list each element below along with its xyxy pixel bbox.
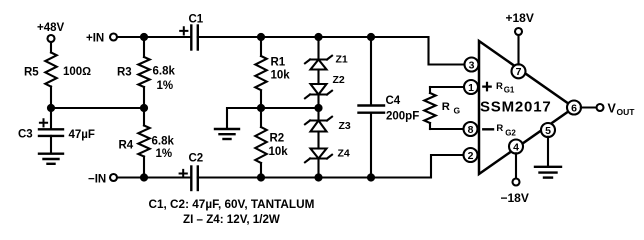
wire C1 to node E [198,36,261,38]
wire pin 6 to VOUT [581,106,597,108]
wire node B to R4 [143,108,145,126]
wire RG to pin 8 [430,128,464,130]
wire node D to C2 [144,176,191,178]
svg-text:Z4: Z4 [338,148,350,160]
svg-text:1%: 1% [157,80,174,92]
svg-text:6.8k: 6.8k [152,135,175,147]
pin 1 [464,80,478,94]
svg-text:7: 7 [516,66,522,78]
pin 5 [541,123,555,137]
wire C4 to node L [370,113,372,178]
pin 3 [465,58,479,72]
svg-text:4: 4 [513,141,519,153]
terminal +18V [506,11,534,35]
svg-text:OUT: OUT [617,107,636,117]
wire R1 to node G [260,91,262,109]
svg-text:R4: R4 [119,140,134,152]
svg-text:R: R [496,123,503,134]
resistor R3 [117,57,175,92]
pin 2 [464,148,478,162]
svg-text:SSM2017: SSM2017 [480,99,551,116]
svg-text:200pF: 200pF [386,111,419,123]
wire Z3 to Z4 [317,132,319,149]
svg-text:C1: C1 [189,14,204,26]
zener Z3 [305,117,351,132]
svg-text:R5: R5 [24,67,39,79]
wire bottom row to pin 2 [371,155,464,178]
svg-text:R3: R3 [117,67,132,79]
node C junction [140,33,148,41]
ground (C3) [39,154,63,164]
wire pin 7 to +18V [517,35,519,65]
wire C3 to ground [50,136,52,153]
zener Z1 [305,54,348,70]
svg-text:G1: G1 [504,85,515,94]
svg-text:ZI – Z4: 12V, 1/2W: ZI – Z4: 12V, 1/2W [183,213,280,226]
resistor R2 [255,127,288,163]
wire Z1 to Z2 [317,70,319,85]
wire pin 1 to RG [430,86,464,88]
wire node E to R1 [260,37,262,56]
svg-text:47µF: 47µF [69,129,95,141]
node L junction [367,173,375,181]
wire R4 to node D [143,157,145,178]
svg-text:6.8k: 6.8k [153,66,176,78]
svg-text:C4: C4 [386,95,401,107]
wire node K to C4 [370,37,372,106]
pin 8 [464,122,478,136]
capacitor C2 [180,153,204,191]
resistor RG [424,87,460,129]
wire node I to Z1 [317,37,319,60]
capacitor C4 [359,95,420,122]
svg-text:R: R [496,81,503,92]
terminal +48V [37,22,65,42]
pin 6 [567,101,581,115]
svg-text:R: R [442,101,450,113]
ground (mid) [215,129,239,139]
resistor R4 [119,126,175,160]
wire top row to pin 3 [371,37,465,65]
svg-text:10k: 10k [269,146,289,158]
wire R5 to node A [50,87,52,109]
svg-text:R2: R2 [270,133,285,145]
svg-text:6: 6 [571,102,577,114]
wire R3 to node B [143,87,145,108]
svg-text:8: 8 [468,124,474,136]
wire node A to C3 [50,108,52,129]
wire R2 to node F [260,163,262,178]
svg-text:100Ω: 100Ω [63,66,91,78]
svg-text:2: 2 [468,150,474,162]
svg-text:Z2: Z2 [333,74,345,86]
svg-text:+IN: +IN [86,33,104,45]
wire -IN to node D [117,176,144,178]
wire C2 to node F [198,176,261,178]
wire node A to node B [51,107,144,109]
node B junction [140,104,148,112]
node D junction [140,173,148,181]
terminal -IN [88,174,117,186]
node H junction [314,104,322,112]
wire Z2 to node H [317,95,319,109]
terminal -18V [501,179,529,205]
wire node E to node I to node K top row [261,36,319,38]
svg-text:R1: R1 [271,57,286,69]
resistor R5 [24,53,91,87]
svg-text:+48V: +48V [37,22,65,34]
capacitor C1 [180,14,204,50]
svg-text:+18V: +18V [506,11,534,25]
pin 4 [509,140,523,154]
svg-text:5: 5 [545,125,551,137]
capacitor C3 [18,119,95,141]
terminal VOUT [597,101,636,117]
svg-text:G2: G2 [505,128,516,137]
svg-text:Z1: Z1 [336,54,348,66]
svg-text:10k: 10k [271,70,291,82]
wire +IN to node C [117,36,144,38]
zener Z4 [305,148,350,163]
svg-text:−IN: −IN [88,174,106,186]
wire bottom row node F to J to L [261,176,371,178]
wire node I to C4 top [319,36,372,38]
ground (pin 5) [535,167,561,178]
node F junction [257,173,265,181]
terminal +IN [86,33,117,45]
pin 7 [512,64,526,78]
svg-text:1: 1 [468,82,474,94]
svg-text:G: G [454,106,461,116]
resistor R1 [255,56,290,90]
label + RG1 [483,81,515,94]
wire node H to Z3 [317,108,319,121]
svg-text:C1, C2: 47µF, 60V, TANTALUM: C1, C2: 47µF, 60V, TANTALUM [149,198,315,211]
svg-text:1%: 1% [156,148,173,160]
svg-text:3: 3 [469,59,475,71]
node J junction [314,173,322,181]
wire +48V to R5 [50,42,52,53]
svg-text:−18V: −18V [501,191,529,205]
svg-text:C2: C2 [189,153,204,165]
wire node C to C1 [144,36,191,38]
node E junction [257,33,265,41]
node I junction [314,33,322,41]
svg-text:V: V [608,101,617,115]
op-amp U1 SSM2017 triangle [479,41,574,174]
label - RG2 [483,123,516,137]
node G junction [257,104,265,112]
node A junction [47,104,55,112]
wire node C to R3 [143,37,145,57]
wire mid ground to node G [227,108,319,129]
wire Z4 to node J [317,159,319,178]
svg-text:Z3: Z3 [339,120,351,132]
node K junction [367,33,375,41]
zener Z2 [305,74,345,98]
wire pin 4 to -18V [515,153,517,178]
svg-text:C3: C3 [18,129,33,141]
wire pin 5 to ground [547,137,549,167]
wire node G to R2 [260,108,262,127]
